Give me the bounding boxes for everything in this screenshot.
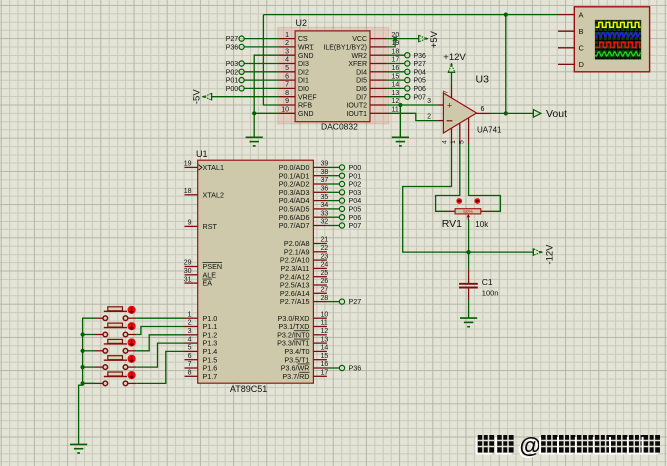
oscilloscope pin A	[558, 14, 574, 16]
terminal P01	[327, 175, 340, 177]
svg-text:6: 6	[481, 106, 485, 113]
svg-text:32: 32	[321, 219, 329, 226]
svg-text:XTAL1: XTAL1	[203, 163, 224, 172]
wire button to bus	[83, 382, 95, 384]
terminal P01 (U2 left)	[244, 79, 279, 81]
scope trace D green	[595, 52, 640, 56]
U1 pin 37 (P0.2/AD2)	[313, 183, 327, 185]
svg-text:5: 5	[188, 345, 192, 352]
RV1 wiper arrow	[467, 216, 469, 220]
U2 pin 20 (VCC)	[370, 38, 386, 40]
svg-text:-12V: -12V	[545, 244, 556, 265]
U2 pin 18 (WR2)	[370, 54, 386, 56]
U2 pin 17 (XFER)	[370, 63, 386, 65]
svg-text:14: 14	[321, 345, 329, 352]
svg-text:4: 4	[442, 140, 449, 144]
wire VCC to +5V	[386, 38, 419, 40]
button 1 left stub	[95, 317, 103, 319]
U1 pin 3 (P1.2)	[185, 334, 198, 336]
ground	[246, 136, 263, 138]
wire output net (top horizontal)	[263, 14, 558, 16]
U2 pin 2 (WR1)	[279, 46, 295, 48]
U2 selection highlight	[278, 27, 389, 124]
svg-text:DI5: DI5	[356, 78, 367, 85]
U2 pin 11 (IOUT1)	[370, 112, 386, 114]
junction -12V node	[467, 250, 471, 254]
svg-text:WR2: WR2	[351, 53, 367, 60]
wire IOUT2 to op-amp pin3	[386, 104, 437, 106]
U1 pin 15 (P3.5/T1)	[313, 359, 327, 361]
svg-text:1: 1	[188, 311, 192, 318]
U1 pin 23 (P2.2/A10)	[313, 259, 327, 261]
svg-text:3: 3	[188, 328, 192, 335]
button 4 actuate marker	[128, 355, 136, 363]
svg-text:DI0: DI0	[298, 86, 309, 93]
terminal P02 (U2 left)	[244, 71, 279, 73]
svg-text:XFER: XFER	[348, 61, 367, 68]
op-amp U3 UA741 body	[443, 93, 476, 133]
button 4 right stub	[128, 366, 136, 368]
wire op-amp pin1 to RV1 left	[436, 144, 460, 211]
wire pin7 to +12V	[451, 72, 453, 84]
wire output net down to op-amp	[505, 15, 507, 114]
ground	[460, 317, 477, 319]
oscilloscope body	[574, 7, 649, 72]
svg-text:100n: 100n	[482, 288, 499, 297]
capacitor C1	[468, 269, 470, 283]
U1 pin 5 (P1.4)	[185, 350, 198, 352]
svg-text:3: 3	[427, 98, 431, 105]
svg-text:P27: P27	[226, 36, 239, 43]
U1 pin 38 (P0.1/AD1)	[313, 175, 327, 177]
wire button to bus	[83, 350, 95, 352]
svg-text:22: 22	[321, 245, 329, 252]
svg-text:P27: P27	[349, 297, 362, 306]
terminal P04 (U2 right)	[386, 71, 405, 73]
ground	[392, 136, 409, 138]
svg-text:1: 1	[450, 140, 457, 144]
button 5 left stub	[95, 382, 103, 384]
svg-text:30: 30	[184, 268, 192, 275]
button 4 left stub	[95, 366, 103, 368]
U1 pin 4 (P1.3)	[185, 342, 198, 344]
svg-text:DAC0832: DAC0832	[321, 122, 358, 132]
svg-text:P1.7: P1.7	[203, 372, 218, 381]
svg-text:39: 39	[321, 161, 329, 168]
op-amp output pin 6 stub	[477, 112, 491, 114]
svg-text:D: D	[579, 60, 585, 69]
svg-text:9: 9	[285, 98, 289, 105]
wire junction to C1	[468, 252, 470, 269]
RV1 marker dot left	[456, 198, 462, 204]
terminal P36 (U2 right)	[386, 54, 405, 56]
svg-text:3: 3	[285, 48, 289, 55]
svg-text:31: 31	[184, 276, 192, 283]
U2 pin 8 (VREF)	[279, 96, 295, 98]
junction bus	[81, 349, 85, 353]
U1 pin 39 (P0.0/AD0)	[313, 166, 327, 168]
svg-text:18: 18	[184, 188, 192, 195]
wire junction to -12V arrow	[469, 251, 534, 253]
svg-text:8: 8	[285, 90, 289, 97]
U1 pin 21 (P2.0/A8)	[313, 243, 327, 245]
wire button to bus	[83, 366, 95, 368]
wire C1 to ground	[468, 300, 470, 318]
svg-text:P0.7/AD7: P0.7/AD7	[279, 221, 310, 230]
oscilloscope pin B	[558, 30, 574, 32]
svg-text:16: 16	[392, 65, 400, 72]
svg-text:4: 4	[188, 336, 192, 343]
junction bus	[81, 381, 85, 385]
junction	[252, 111, 256, 115]
svg-text:DI6: DI6	[356, 86, 367, 93]
svg-text:34: 34	[321, 202, 329, 209]
svg-text:12: 12	[321, 328, 329, 335]
svg-text:1: 1	[285, 32, 289, 39]
svg-text:21: 21	[321, 237, 329, 244]
scope trace C red	[595, 42, 640, 47]
scope trace B blue	[595, 32, 640, 37]
wire bus to ground	[79, 383, 83, 444]
U1 pin 13 (P3.3/INT1)	[313, 342, 327, 344]
svg-text:18: 18	[392, 48, 400, 55]
svg-text:7: 7	[285, 82, 289, 89]
svg-text:26: 26	[321, 278, 329, 285]
U2 pin 6 (DI1)	[279, 79, 295, 81]
svg-text:2: 2	[285, 40, 289, 47]
wire RFB to output net (vertical)	[263, 15, 279, 105]
watermark	[476, 433, 660, 458]
U2 pin 7 (DI0)	[279, 87, 295, 89]
wire button4 to P1.3	[136, 343, 184, 367]
push button 1	[104, 310, 127, 312]
svg-text:ILE(BY1/BY2): ILE(BY1/BY2)	[323, 45, 367, 52]
U1 pin 24 (P2.3/A11)	[313, 267, 327, 269]
wire VCC to ILE pin19	[386, 39, 395, 47]
svg-text:17: 17	[392, 57, 400, 64]
svg-text:7: 7	[443, 90, 450, 94]
wire button bus left	[83, 318, 95, 383]
terminal P27 (U2 right)	[386, 63, 405, 65]
button 3 left stub	[95, 350, 103, 352]
svg-text:UA741: UA741	[477, 126, 502, 135]
button 3 actuate marker	[128, 338, 136, 346]
svg-text:38: 38	[321, 169, 329, 176]
svg-text:GND: GND	[298, 53, 314, 60]
svg-text:35: 35	[321, 194, 329, 201]
U1 pin 33 (P0.6/AD6)	[313, 216, 327, 218]
svg-text:+: +	[447, 101, 452, 111]
junction bus	[81, 365, 85, 369]
junction output net	[504, 13, 508, 17]
svg-text:GND: GND	[298, 111, 314, 118]
svg-text:P01: P01	[226, 78, 239, 85]
svg-text:11: 11	[392, 107, 399, 114]
U2 pin 12 (IOUT2)	[370, 104, 386, 106]
terminal P04	[327, 200, 340, 202]
junction IOUT2	[398, 103, 402, 107]
svg-text:5: 5	[285, 65, 289, 72]
svg-text:C: C	[579, 44, 585, 53]
svg-text:29: 29	[184, 260, 192, 267]
svg-text:8: 8	[188, 370, 192, 377]
wire IOUT2 to ground	[399, 105, 401, 137]
button 2 left stub	[95, 334, 103, 336]
svg-text:16: 16	[321, 361, 329, 368]
wire IOUT1 to op-amp pin2	[386, 113, 437, 120]
U2 pin 4 (DI3)	[279, 63, 295, 65]
svg-text:13: 13	[392, 90, 400, 97]
svg-text:U2: U2	[296, 18, 308, 28]
U1 pin 10 (P3.0/RXD)	[313, 317, 327, 319]
svg-text:10: 10	[281, 107, 289, 114]
svg-text:2: 2	[188, 320, 192, 327]
button 5 actuate marker	[128, 371, 136, 379]
power terminal +5V	[418, 35, 420, 43]
RV1 right stub	[481, 210, 489, 212]
U2 pin 1 (CS)	[279, 38, 295, 40]
U1 pin 28 (P2.7/A15)	[313, 301, 327, 303]
ground	[70, 443, 87, 445]
U1 pin 30 (ALE)	[185, 274, 198, 276]
potentiometer RV1 body	[455, 209, 481, 214]
svg-text:25: 25	[321, 270, 329, 277]
svg-text:VREF: VREF	[298, 94, 317, 101]
oscilloscope screen	[595, 20, 641, 60]
wire VREF to -5V	[212, 96, 279, 98]
svg-text:17: 17	[321, 370, 329, 377]
junction output	[504, 111, 508, 115]
svg-text:VCC: VCC	[352, 36, 367, 43]
wire RV1 wiper down	[468, 220, 470, 253]
U1 pin 9 (RST)	[185, 225, 198, 227]
svg-text:P02: P02	[226, 69, 239, 76]
svg-text:P27: P27	[414, 61, 427, 68]
svg-text:19: 19	[184, 161, 192, 168]
svg-text:+5V: +5V	[429, 30, 440, 48]
svg-text:DI1: DI1	[298, 78, 309, 85]
scope trace A yellow	[595, 22, 640, 27]
power terminal +12V	[448, 71, 456, 73]
svg-text:RV1: RV1	[442, 218, 462, 230]
button 1 actuate marker	[128, 306, 136, 314]
svg-text:27: 27	[321, 287, 329, 294]
power terminal -5V	[211, 93, 213, 101]
U2 pin 9 (RFB)	[279, 104, 295, 106]
op-amp pin 2 stub	[437, 120, 443, 122]
svg-text:P04: P04	[414, 69, 427, 76]
svg-text:P2.7/A15: P2.7/A15	[280, 297, 310, 306]
svg-text:P06: P06	[414, 86, 427, 93]
svg-text:10: 10	[321, 311, 329, 318]
svg-text:5: 5	[459, 140, 466, 144]
svg-text:DI2: DI2	[298, 69, 309, 76]
svg-text:6: 6	[188, 353, 192, 360]
push button 2	[104, 327, 127, 329]
U1 pin 32 (P0.7/AD7)	[313, 225, 327, 227]
U1 pin 22 (P2.1/A9)	[313, 251, 327, 253]
terminal P36 (U1)	[327, 367, 340, 369]
U1 pin 19 (XTAL1)	[185, 166, 198, 168]
op-amp pin 3 stub	[437, 104, 443, 106]
U1 pin 16 (P3.6/WR)	[313, 367, 327, 369]
svg-text:B: B	[579, 27, 584, 36]
svg-text:33: 33	[321, 210, 329, 217]
svg-text:10k: 10k	[475, 220, 489, 229]
wire output to Vout node	[490, 112, 533, 114]
U2 pin 14 (DI6)	[370, 87, 386, 89]
RV1 left stub	[447, 210, 455, 212]
svg-text:4: 4	[285, 57, 289, 64]
terminal P07 (U2 right)	[386, 96, 405, 98]
wire button1 to P1.0	[136, 317, 184, 319]
terminal P36 (U2 left)	[244, 46, 279, 48]
svg-text:@: @	[520, 433, 541, 458]
svg-text:A: A	[579, 10, 584, 19]
svg-text:IOUT1: IOUT1	[346, 111, 367, 118]
U1 pin 27 (P2.6/A14)	[313, 292, 327, 294]
terminal P00 (U2 left)	[244, 87, 279, 89]
U1 pin 36 (P0.3/AD3)	[313, 191, 327, 193]
svg-text:RFB: RFB	[298, 103, 312, 110]
svg-text:2: 2	[427, 113, 431, 120]
op-amp pin 1 stub	[459, 123, 461, 144]
op-amp - mark	[447, 120, 453, 122]
svg-text:7: 7	[188, 361, 192, 368]
svg-text:C1: C1	[482, 277, 493, 287]
U1 pin 11 (P3.1/TXD)	[313, 326, 327, 328]
terminal P00	[327, 166, 340, 168]
U1 pin 18 (XTAL2)	[185, 194, 198, 196]
svg-text:-5V: -5V	[192, 89, 203, 104]
terminal P06 (U2 right)	[386, 87, 405, 89]
svg-text:13: 13	[321, 336, 329, 343]
U1 pin 2 (P1.1)	[185, 326, 198, 328]
terminal P07	[327, 225, 340, 227]
svg-text:P07: P07	[349, 221, 362, 230]
U1 pin 29 (PSEN)	[185, 266, 198, 268]
chip U1 AT89C51 body	[198, 160, 314, 383]
U2 pin 13 (DI7)	[370, 96, 386, 98]
terminal Vout arrow	[533, 110, 541, 118]
button 2 right stub	[128, 334, 136, 336]
chip U2 DAC0832 body	[295, 31, 370, 122]
svg-text:24: 24	[321, 262, 329, 269]
svg-text:P03: P03	[226, 61, 239, 68]
svg-text:DI7: DI7	[356, 94, 367, 101]
U1 pin 35 (P0.4/AD4)	[313, 200, 327, 202]
U1 pin 34 (P0.5/AD5)	[313, 208, 327, 210]
wire U2 pin3 GND	[254, 55, 279, 137]
svg-text:36: 36	[321, 186, 329, 193]
svg-text:CS: CS	[298, 36, 308, 43]
button 2 actuate marker	[128, 322, 136, 330]
button 1 right stub	[128, 317, 136, 319]
svg-text:6: 6	[285, 73, 289, 80]
oscilloscope pin D	[558, 63, 574, 65]
svg-text:P07: P07	[414, 94, 427, 101]
U1 XTAL1 clock mark	[199, 165, 203, 171]
op-amp pin 4 stub	[451, 128, 453, 144]
button 3 right stub	[128, 350, 136, 352]
U1 pin 7 (P1.6)	[185, 367, 198, 369]
svg-text:P00: P00	[226, 86, 239, 93]
svg-text:+12V: +12V	[443, 52, 466, 63]
terminal P02	[327, 183, 340, 185]
push button 5	[104, 376, 127, 378]
terminal P27 (U1)	[327, 301, 340, 303]
U1 pin 1 (P1.0)	[185, 317, 198, 319]
svg-text:28: 28	[321, 295, 329, 302]
svg-text:P36: P36	[414, 53, 427, 60]
svg-text:11: 11	[321, 320, 328, 327]
wire button5 to P1.4	[136, 351, 184, 383]
wire button to bus	[83, 334, 95, 336]
U1 pin 12 (P3.2/INT0)	[313, 334, 327, 336]
svg-text:23: 23	[321, 253, 329, 260]
terminal P27 (U2 left)	[244, 38, 279, 40]
svg-text:XTAL2: XTAL2	[203, 190, 224, 199]
svg-text:RST: RST	[203, 222, 218, 231]
svg-text:14: 14	[392, 82, 400, 89]
U1 pin 25 (P2.4/A12)	[313, 276, 327, 278]
terminal P06	[327, 216, 340, 218]
U1 pin 8 (P1.7)	[185, 375, 198, 377]
svg-text:DI3: DI3	[298, 61, 309, 68]
svg-text:P05: P05	[414, 78, 427, 85]
svg-text:P3.7/RD: P3.7/RD	[282, 372, 309, 381]
svg-text:37: 37	[321, 177, 329, 184]
button 5 right stub	[128, 382, 136, 384]
wire U2 pin10 GND	[254, 112, 279, 114]
svg-text:DI4: DI4	[356, 69, 367, 76]
svg-text:WR1: WR1	[298, 45, 314, 52]
U2 pin 16 (DI4)	[370, 71, 386, 73]
terminal P05 (U2 right)	[386, 79, 405, 81]
U1 pin 14 (P3.4/T0)	[313, 350, 327, 352]
svg-text:U1: U1	[196, 149, 208, 159]
wire button3 to P1.2	[136, 335, 184, 351]
svg-text:EA: EA	[203, 279, 213, 288]
op-amp pin 5 stub	[468, 118, 470, 144]
junction VCC	[393, 37, 397, 41]
push button 3	[104, 343, 127, 345]
wire button2 to P1.1	[136, 327, 184, 335]
svg-text:U3: U3	[476, 74, 490, 86]
U2 pin 5 (DI2)	[279, 71, 295, 73]
wire op-amp pin5 to RV1 right	[469, 144, 501, 211]
svg-text:15: 15	[321, 353, 329, 360]
svg-text:15: 15	[392, 73, 400, 80]
svg-text:IOUT2: IOUT2	[346, 103, 367, 110]
junction bus	[81, 332, 85, 336]
U2 pin 10 (GND)	[279, 112, 295, 114]
wire op-amp pin4 to -12V rail	[403, 144, 469, 252]
power terminal -12V	[532, 248, 534, 256]
svg-text:P36: P36	[226, 45, 239, 52]
oscilloscope pin C	[558, 47, 574, 49]
svg-text:12: 12	[392, 98, 400, 105]
push button 4	[104, 359, 127, 361]
U2 pin 3 (GND)	[279, 54, 295, 56]
U1 pin 6 (P1.5)	[185, 359, 198, 361]
terminal P05	[327, 208, 340, 210]
svg-text:P36: P36	[349, 364, 362, 373]
U1 pin 17 (P3.7/RD)	[313, 375, 327, 377]
svg-text:AT89C51: AT89C51	[230, 384, 267, 394]
svg-text:9: 9	[188, 220, 192, 227]
U1 pin 26 (P2.5/A13)	[313, 284, 327, 286]
